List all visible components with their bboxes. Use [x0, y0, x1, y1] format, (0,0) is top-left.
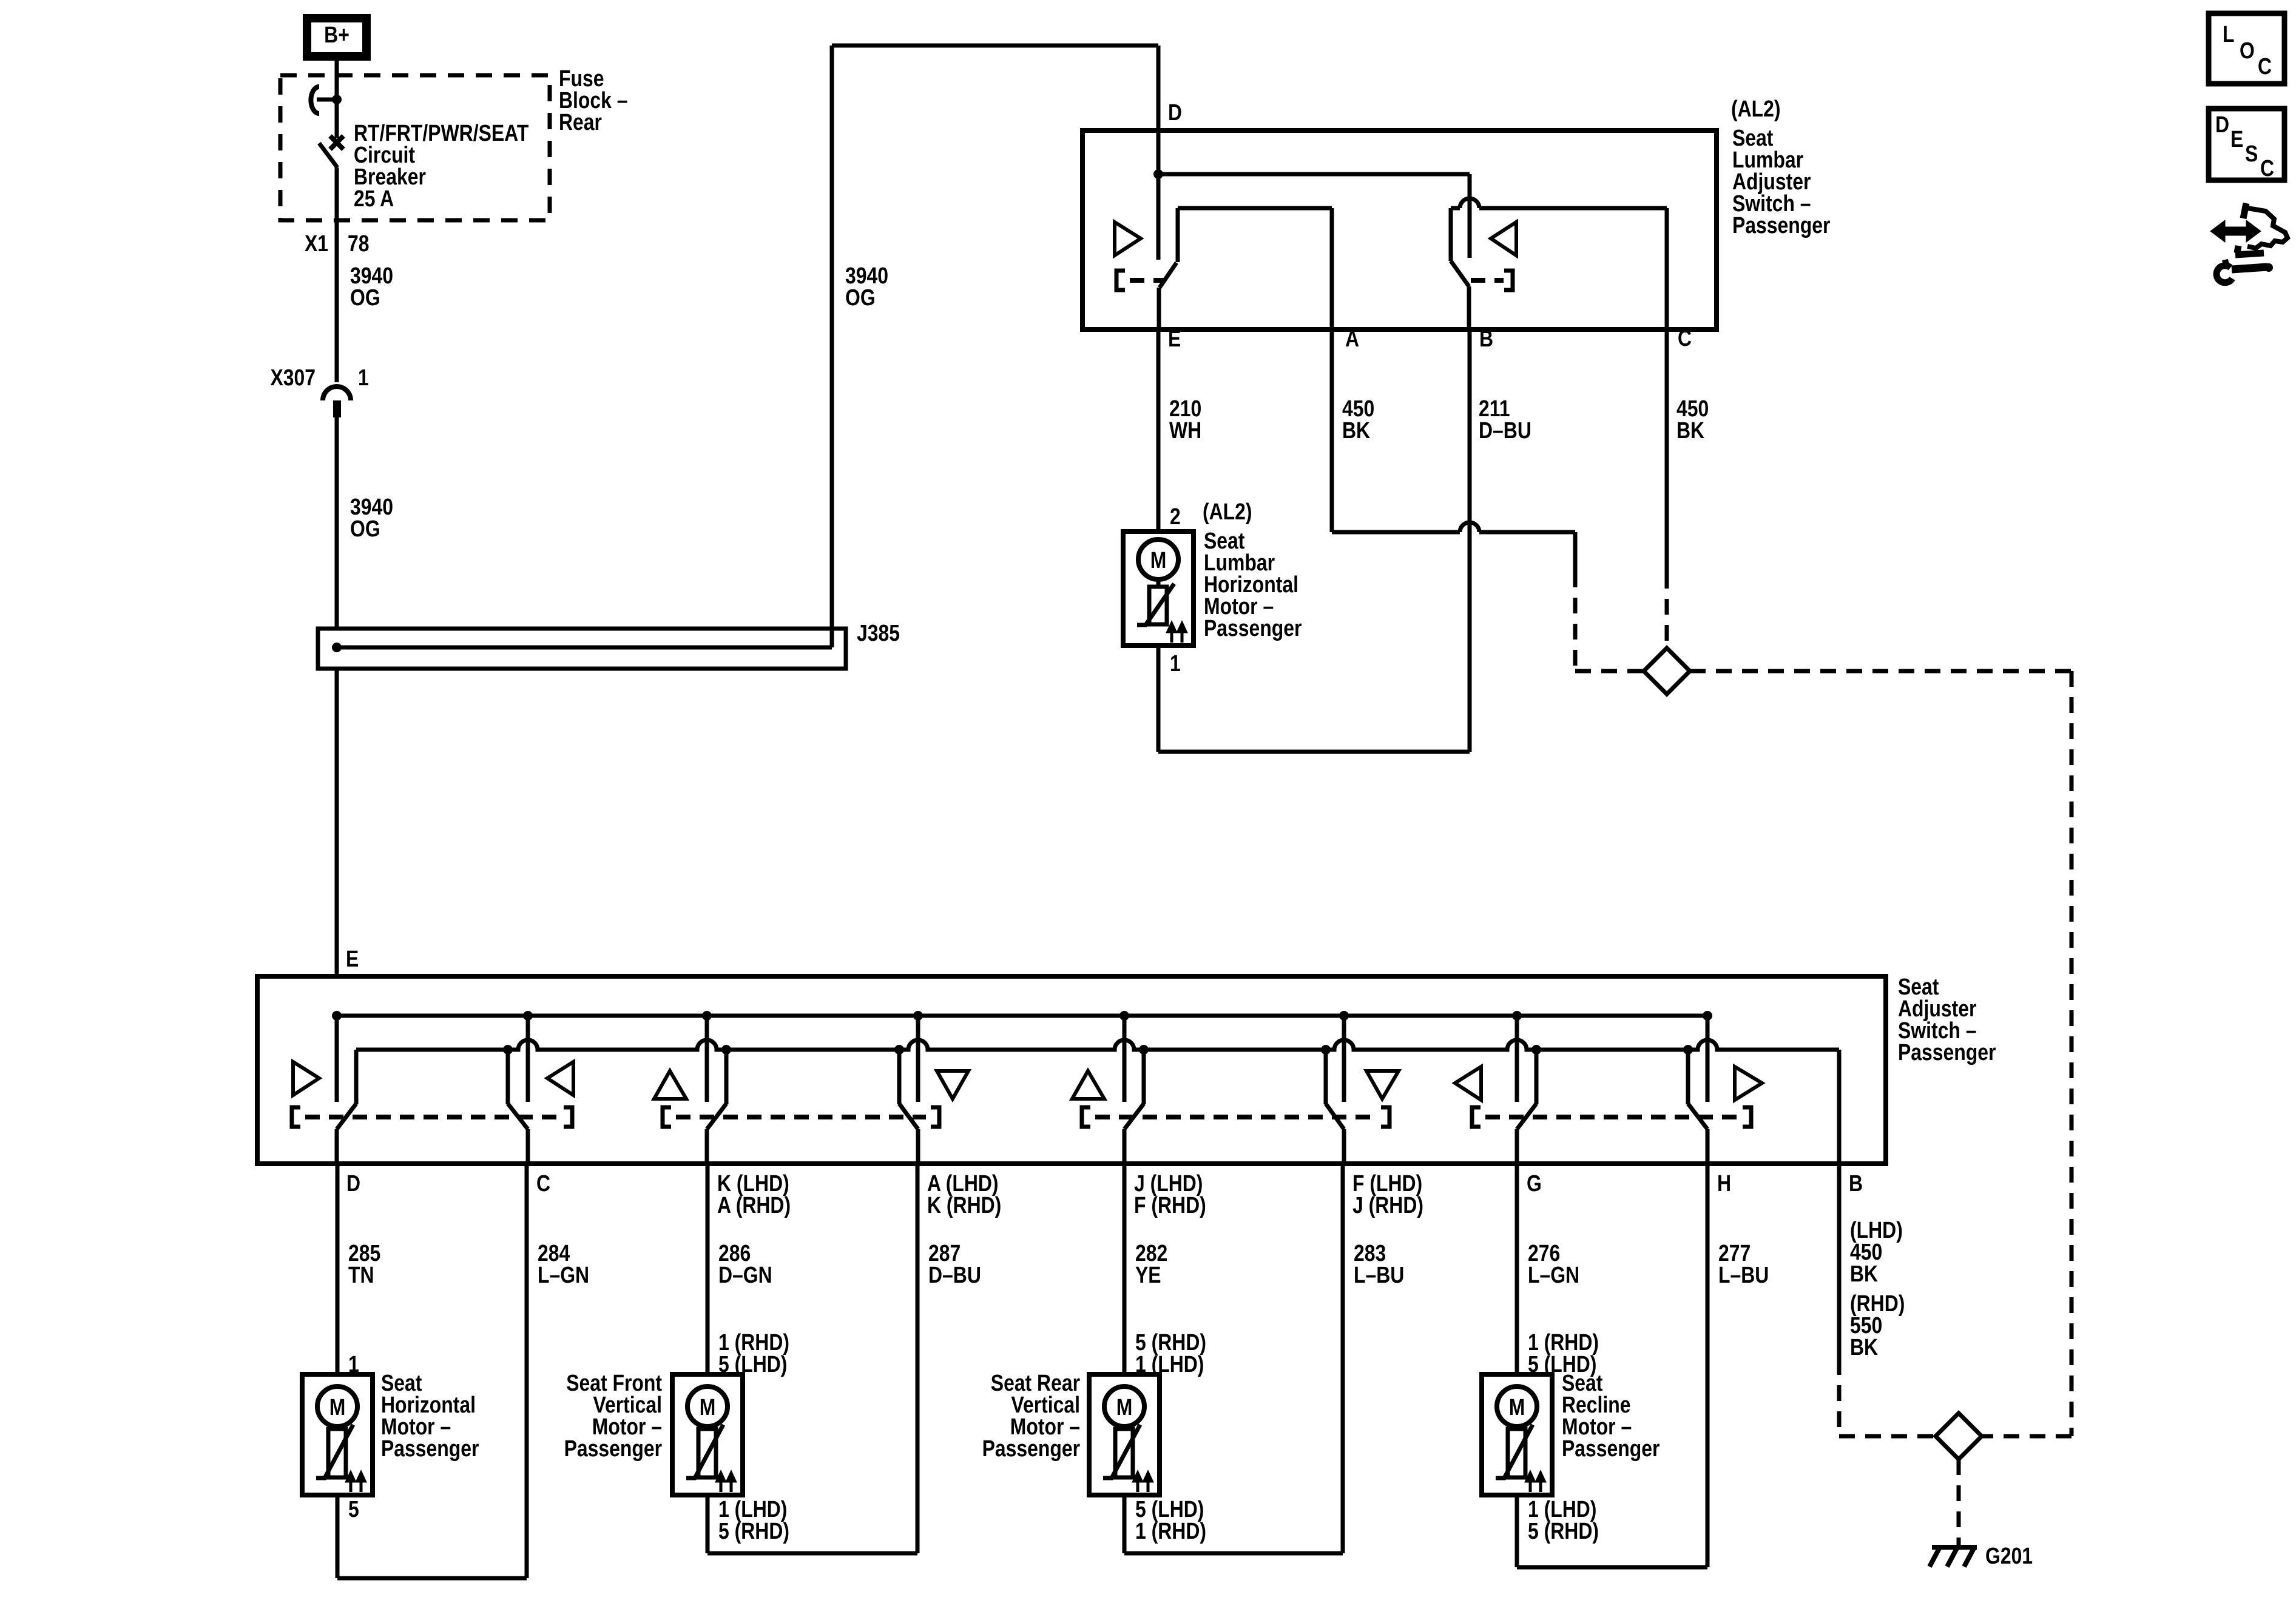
wire D to seat horizontal motor [336, 1164, 340, 1374]
wire labels 285 TN [348, 1240, 380, 1288]
wire label 3940 OG [350, 263, 393, 310]
svg-text:S: S [2245, 141, 2258, 166]
c1 seat forward contact [332, 1011, 356, 1164]
svg-text:(AL2): (AL2) [1203, 499, 1252, 524]
wire J385 to seat adjuster switch pin E [335, 669, 339, 976]
LOC reference box [2209, 13, 2284, 84]
svg-text:F (RHD): F (RHD) [1134, 1192, 1206, 1218]
wire motor2 return to pin A [707, 1164, 917, 1553]
lumbar right contact (retract) [1451, 198, 1667, 329]
c6 rear down contact [1321, 1011, 1349, 1164]
svg-text:C: C [2258, 53, 2272, 79]
lumbar motor labels [1203, 499, 1302, 641]
svg-text:E: E [2230, 126, 2243, 152]
lumbar right mech linkage [1471, 271, 1513, 290]
svg-text:BK: BK [1676, 417, 1704, 443]
svg-text:M: M [700, 1394, 716, 1420]
wire breaker to X1 [335, 167, 339, 382]
splice pack J385 [318, 629, 846, 669]
label Seat Rear Vertical Motor - Passenger [982, 1370, 1081, 1461]
label Fuse Block - Rear [559, 66, 628, 135]
circuit breaker RT/FRT/PWR/SEAT 25A [311, 87, 343, 167]
dashed ground run to right edge [1690, 671, 2071, 1436]
B+ battery symbol [307, 18, 366, 56]
fuse block dashed box [280, 75, 550, 220]
svg-text:C: C [536, 1170, 550, 1196]
wire motor4 return to pin H [1517, 1164, 1707, 1567]
svg-text:Rear: Rear [559, 109, 602, 135]
pin labels 1 (RHD) 5 (LHD) [1528, 1329, 1599, 1377]
svg-text:M: M [1509, 1394, 1525, 1420]
ground bus inside switch [356, 1040, 1839, 1050]
svg-text:1 (RHD): 1 (RHD) [1135, 1518, 1206, 1544]
seat rear vertical motor - passenger [1089, 1374, 1160, 1495]
svg-text:D: D [2215, 112, 2229, 137]
wire lumbar A to ground path [1332, 522, 1644, 671]
svg-text:D: D [1168, 100, 1182, 125]
svg-text:BK: BK [1342, 417, 1370, 443]
svg-text:Passenger: Passenger [381, 1436, 479, 1461]
svg-text:5 (RHD): 5 (RHD) [718, 1518, 789, 1544]
dashed wire to G201 [1957, 1459, 1961, 1545]
svg-text:H: H [1717, 1170, 1731, 1196]
label circuit breaker [354, 120, 529, 211]
svg-text:5: 5 [348, 1496, 359, 1522]
wire labels 284 L-GN [538, 1240, 589, 1288]
pin labels 5 (RHD) 1 (LHD) [1135, 1329, 1206, 1377]
svg-text:Passenger: Passenger [1204, 615, 1302, 641]
pin labels 1 (LHD) 5 (RHD) [718, 1496, 789, 1544]
svg-text:Passenger: Passenger [1898, 1039, 1996, 1065]
label Seat Adjuster Switch - Passenger [1898, 974, 1996, 1065]
wire B+ to circuit breaker [335, 56, 339, 100]
diagnostic icon (arrow glove wrench) [2210, 203, 2288, 283]
direction triangle pair 4 (recline) [1455, 1067, 1481, 1100]
wire lumbar motor pin1 to switch pin B [1158, 329, 1470, 752]
svg-text:B: B [1849, 1170, 1863, 1196]
lumbar pin labels E A B C [1168, 325, 1692, 351]
wire pin B to ground splice [1839, 1164, 1936, 1436]
svg-text:YE: YE [1135, 1262, 1161, 1288]
svg-text:D–BU: D–BU [1479, 417, 1531, 443]
svg-text:D–GN: D–GN [718, 1262, 772, 1288]
svg-text:Passenger: Passenger [564, 1436, 663, 1461]
wire X307 to J385 [335, 415, 339, 629]
svg-text:M: M [1116, 1394, 1133, 1420]
direction triangle pair 2 (front vertical) [654, 1071, 686, 1099]
wire 3940 OG riser to lumbar switch [832, 46, 1158, 647]
seat recline motor - passenger [1482, 1374, 1552, 1495]
svg-text:BK: BK [1850, 1334, 1878, 1360]
svg-text:M: M [1150, 547, 1167, 573]
svg-text:L–BU: L–BU [1354, 1262, 1404, 1288]
ground bus to pin B [1837, 1050, 1842, 1164]
c3 front up contact [702, 1011, 731, 1164]
svg-text:Passenger: Passenger [982, 1436, 1081, 1461]
wire K to seat front vertical motor [706, 1164, 710, 1374]
splice diamond (seat switch ground) [1936, 1413, 1982, 1459]
svg-text:M: M [329, 1394, 346, 1420]
pin labels 5 (LHD) 1 (RHD) [1135, 1496, 1206, 1544]
lumbar switch internal: D feed [1153, 130, 1470, 260]
svg-text:D–BU: D–BU [928, 1262, 981, 1288]
svg-text:1: 1 [1170, 650, 1181, 676]
pin labels 1 (LHD) 5 (RHD) [1528, 1496, 1599, 1544]
wire labels 287 D-BU [928, 1240, 981, 1288]
svg-text:WH: WH [1169, 417, 1201, 443]
c4 front down contact [894, 1011, 923, 1164]
mechanical linkage pair 2 [663, 1107, 939, 1127]
svg-text:A: A [1345, 326, 1359, 351]
seat lumbar adjuster switch box [1082, 130, 1717, 329]
wire motor3 return to pin F [1124, 1164, 1343, 1553]
power bus (E) inside switch [337, 1014, 1707, 1018]
ground G201 [1930, 1547, 1977, 1567]
svg-text:BK: BK [1850, 1261, 1878, 1286]
wire labels 282 YE [1135, 1240, 1167, 1288]
seat lumbar horizontal motor - passenger [1123, 532, 1194, 646]
svg-text:(AL2): (AL2) [1731, 96, 1781, 121]
svg-text:G201: G201 [1985, 1543, 2033, 1568]
svg-text:L–GN: L–GN [538, 1262, 589, 1288]
lumbar left direction triangle [1115, 222, 1141, 255]
svg-text:A (RHD): A (RHD) [717, 1192, 791, 1218]
svg-text:E: E [346, 946, 359, 971]
mechanical linkage pair 4 [1472, 1107, 1751, 1127]
svg-text:X1: X1 [305, 231, 328, 256]
connector X1 pin 78 [305, 231, 370, 256]
svg-text:J385: J385 [857, 620, 900, 646]
lumbar right direction triangle [1491, 222, 1516, 255]
svg-text:L: L [2223, 21, 2234, 47]
wire labels 283 L-BU [1354, 1240, 1404, 1288]
wire J to seat rear vertical motor [1123, 1164, 1127, 1374]
svg-text:C: C [2260, 155, 2274, 181]
label Seat Recline Motor - Passenger [1562, 1370, 1660, 1461]
direction triangle pair 1 (horizontal) [293, 1062, 319, 1095]
wire labels 277 L-BU [1718, 1240, 1769, 1288]
wire motor1 return to pin C [337, 1164, 527, 1578]
c8 recline contact [1683, 1011, 1712, 1164]
svg-text:Passenger: Passenger [1562, 1436, 1660, 1461]
label (AL2) Seat Lumbar Adjuster Switch - Passenger [1731, 96, 1831, 238]
wire labels 286 D-GN [718, 1240, 772, 1288]
svg-text:C: C [1678, 325, 1692, 351]
svg-text:OG: OG [350, 516, 380, 541]
svg-text:K (RHD): K (RHD) [927, 1192, 1001, 1218]
wire label 3940 OG (2) [350, 494, 393, 541]
wire labels 276 L-GN [1528, 1240, 1579, 1288]
svg-text:X307: X307 [270, 365, 316, 390]
svg-text:5 (RHD): 5 (RHD) [1528, 1518, 1599, 1544]
svg-text:B+: B+ [324, 22, 349, 47]
svg-text:G: G [1527, 1170, 1542, 1196]
lumbar left contact (extend) [1159, 208, 1332, 329]
wire lumbar C to ground splice [1665, 329, 1669, 648]
lumbar wire A down [1330, 208, 1334, 532]
label Seat Horizontal Motor - Passenger [381, 1370, 479, 1461]
svg-text:1: 1 [358, 365, 369, 390]
svg-text:OG: OG [350, 285, 380, 310]
svg-text:TN: TN [348, 1262, 374, 1288]
svg-text:B: B [1479, 326, 1493, 351]
c7 recline contact [1512, 1011, 1541, 1164]
wire G to seat recline motor [1515, 1164, 1519, 1374]
connector X307 pin 1 [270, 365, 368, 417]
pin labels 1 (RHD) 5 (LHD) [718, 1329, 789, 1377]
svg-text:Passenger: Passenger [1732, 212, 1831, 238]
mechanical linkage pair 3 [1082, 1107, 1389, 1127]
wire labels (LHD) 450 BK / (RHD) 550 BK [1850, 1217, 1905, 1360]
seat front vertical motor - passenger [672, 1374, 743, 1495]
svg-text:2: 2 [1170, 504, 1181, 529]
seat adjuster switch - passenger box [257, 976, 1886, 1164]
svg-text:78: 78 [348, 231, 370, 256]
c5 rear up contact [1119, 1011, 1149, 1164]
svg-text:E: E [1168, 326, 1181, 351]
label Seat Front Vertical Motor - Passenger [564, 1370, 663, 1461]
switch pin labels [346, 1170, 1863, 1218]
svg-text:L–BU: L–BU [1718, 1262, 1769, 1288]
mechanical linkage pair 1 [292, 1107, 572, 1127]
splice diamond (lumbar grounds) [1644, 648, 1690, 694]
direction triangle pair 3 (rear vertical) [1072, 1071, 1104, 1099]
wire labels 210 WH / 450 BK / 211 D-BU / 450 BK [1169, 396, 1709, 443]
svg-text:D: D [346, 1170, 360, 1196]
svg-text:O: O [2240, 38, 2255, 63]
seat horizontal motor - passenger [302, 1374, 373, 1495]
DESC reference box [2209, 109, 2284, 181]
svg-text:L–GN: L–GN [1528, 1262, 1579, 1288]
svg-text:J (RHD): J (RHD) [1352, 1192, 1423, 1218]
svg-text:OG: OG [845, 285, 876, 310]
svg-text:25 A: 25 A [354, 186, 394, 211]
lumbar left mech linkage [1116, 271, 1164, 290]
c2 seat rearward contact [503, 1011, 533, 1164]
wire pin E to lumbar motor pin 2 [1156, 329, 1161, 532]
wire label 3940 OG (riser) [845, 263, 888, 310]
